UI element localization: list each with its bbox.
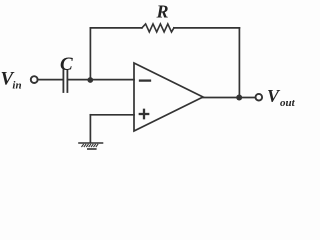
label Vout [267,86,296,109]
svg-text:in: in [12,79,21,91]
input terminal Vin [31,76,38,83]
svg-text:R: R [156,1,169,21]
capacitor C [63,70,67,92]
node junction after capacitor [87,77,93,83]
output terminal Vout [255,94,262,101]
op-amp minus pin label [140,79,150,81]
wire top left to resistor [90,27,141,29]
wire resistor to top right corner [174,27,240,29]
wire op-amp output [203,97,256,99]
svg-text:C: C [60,54,73,75]
wire non-inverting input down to ground [89,115,91,143]
node junction at output [236,95,242,101]
wire feedback left vertical [89,28,91,80]
wire non-inverting input horizontal [90,114,134,116]
wire capacitor to op-amp inverting input [68,79,135,81]
op-amp plus pin label [140,110,148,118]
label Vin [1,69,22,92]
op-amp U1 [134,63,203,131]
wire input terminal to capacitor [38,79,63,81]
resistor R [142,24,174,32]
wire feedback right vertical [238,28,240,98]
svg-text:out: out [280,97,296,109]
svg-text:V: V [267,86,281,106]
ground [79,143,103,149]
